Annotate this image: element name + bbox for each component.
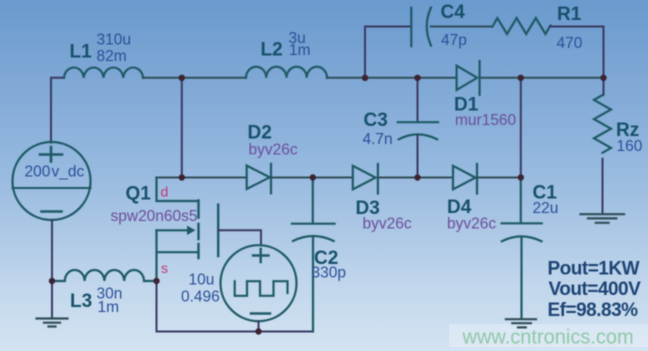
- wire source bottom: [51, 220, 53, 281]
- wire Rz to ground: [602, 159, 604, 213]
- diode D4: [453, 164, 477, 194]
- capacitor C2: [292, 178, 335, 332]
- wire C3 riser top: [417, 78, 419, 122]
- svg-text:1m: 1m: [289, 42, 311, 59]
- wire L1 to L2: [143, 77, 246, 79]
- wire C4 to R1: [431, 26, 493, 28]
- svg-text:byv26c: byv26c: [363, 216, 412, 233]
- diode D2: [247, 164, 271, 194]
- diode D3: [353, 164, 378, 194]
- svg-text:Ef=98.83%: Ef=98.83%: [548, 300, 639, 321]
- svg-text:47p: 47p: [441, 32, 467, 49]
- svg-text:10u: 10u: [189, 272, 215, 289]
- wire D3 to D4: [378, 177, 453, 179]
- svg-text:330p: 330p: [312, 265, 346, 282]
- wire C3 to diode row: [417, 136, 419, 178]
- junction node dots: [49, 75, 607, 335]
- svg-text:s: s: [161, 260, 168, 276]
- svg-text:200: 200: [25, 163, 51, 180]
- svg-text:spw20n60s5: spw20n60s5: [111, 208, 198, 225]
- svg-text:310u: 310u: [97, 32, 131, 49]
- svg-text:470: 470: [557, 35, 583, 52]
- capacitor C1: [502, 178, 542, 319]
- pulse source plus: [253, 249, 269, 262]
- svg-text:L2: L2: [261, 40, 283, 61]
- svg-text:mur1560: mur1560: [455, 112, 517, 129]
- wire gate to pulse source: [218, 230, 261, 245]
- svg-text:d: d: [161, 184, 169, 200]
- capacitor C3: [398, 122, 438, 139]
- transistor Q1 channel: [197, 201, 199, 259]
- transistor Q1 drain lead: [157, 178, 199, 202]
- svg-text:1m: 1m: [98, 299, 120, 316]
- svg-text:C4: C4: [441, 2, 466, 23]
- wire pulse source bottom: [258, 321, 260, 331]
- svg-text:Vout=400V: Vout=400V: [549, 279, 642, 300]
- svg-text:byv26c: byv26c: [249, 142, 298, 159]
- wire D1 to R1 corner: [480, 77, 604, 79]
- svg-text:C3: C3: [364, 110, 388, 131]
- wire Rz riser: [603, 78, 605, 95]
- transistor Q1 gate bar: [217, 205, 219, 256]
- svg-text:Pout=1KW: Pout=1KW: [548, 259, 640, 280]
- wire L2 to D1: [327, 77, 457, 79]
- diode row wire (d node): [157, 177, 247, 179]
- capacitor C4: [411, 8, 431, 47]
- svg-text:v_dc: v_dc: [52, 163, 85, 180]
- voltage source minus: [42, 210, 62, 213]
- inductor L3: [52, 270, 157, 281]
- ground (C1): [506, 319, 536, 327]
- svg-text:82m: 82m: [97, 48, 127, 65]
- svg-text:L1: L1: [70, 42, 93, 63]
- wire bottom rail: [157, 281, 314, 332]
- resistor R1: [493, 18, 551, 34]
- svg-text:4.7n: 4.7n: [363, 131, 393, 148]
- diode D1: [457, 61, 480, 95]
- pulse source V2 circle: [221, 245, 297, 321]
- resistor Rz: [594, 95, 611, 153]
- ground (Rz): [581, 214, 625, 223]
- svg-text:www.cntronics.com: www.cntronics.com: [462, 327, 634, 349]
- voltage source V1 circle: [13, 142, 91, 220]
- svg-text:22u: 22u: [533, 200, 559, 217]
- wire to ground (V1): [51, 281, 53, 318]
- wire drop to Q1 drain row: [181, 78, 183, 178]
- svg-text:L3: L3: [70, 291, 92, 312]
- svg-text:Q1: Q1: [126, 183, 152, 204]
- pulse source waveform: [235, 281, 288, 296]
- voltage source plus: [40, 147, 62, 162]
- transistor Q1 source lead: [157, 230, 199, 281]
- svg-text:160: 160: [617, 138, 643, 155]
- ground (V1): [37, 319, 68, 327]
- inductor L2: [246, 67, 327, 78]
- voltage source chord: [13, 187, 91, 189]
- svg-text:byv26c: byv26c: [447, 216, 496, 233]
- transistor Q1 bulk arrow: [157, 229, 189, 231]
- svg-text:0.496: 0.496: [181, 289, 220, 306]
- inductor L1: [64, 68, 143, 78]
- wire D4 to C1 node: [477, 177, 521, 179]
- pulse source minus: [251, 312, 270, 314]
- wire C4 branch riser: [365, 27, 411, 78]
- wire D2 to D3: [271, 177, 353, 179]
- wire D1 node drop: [520, 78, 522, 178]
- wire R1 to right corner: [551, 27, 604, 78]
- wire top rail left: [51, 78, 64, 143]
- svg-text:R1: R1: [557, 4, 582, 25]
